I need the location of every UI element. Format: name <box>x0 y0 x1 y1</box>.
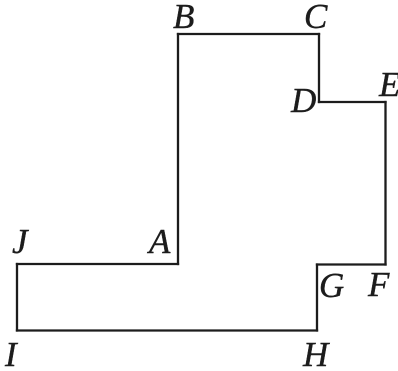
side HI (bottom horizontal H to I) <box>17 329 317 331</box>
side EF (right vertical E to F) <box>384 102 386 265</box>
side IJ (left vertical I to J) <box>16 264 18 331</box>
side FG (horizontal F to G) <box>317 263 386 265</box>
svg-text:D: D <box>290 81 316 120</box>
svg-text:F: F <box>367 265 390 304</box>
side DE (horizontal D to E) <box>319 101 386 103</box>
svg-text:A: A <box>147 222 171 261</box>
svg-text:H: H <box>302 335 330 371</box>
svg-text:J: J <box>12 222 29 261</box>
svg-text:G: G <box>319 266 344 305</box>
svg-text:E: E <box>378 65 398 104</box>
svg-text:I: I <box>4 335 19 371</box>
side BC (top horizontal B to C) <box>178 33 319 35</box>
svg-text:C: C <box>304 0 328 36</box>
side CD (vertical C to D) <box>318 34 320 102</box>
side AB (vertical A to B) <box>177 34 179 264</box>
svg-text:B: B <box>173 0 194 36</box>
side GH (vertical G to H) <box>316 265 318 331</box>
side JA (horizontal J to A) <box>17 263 178 265</box>
